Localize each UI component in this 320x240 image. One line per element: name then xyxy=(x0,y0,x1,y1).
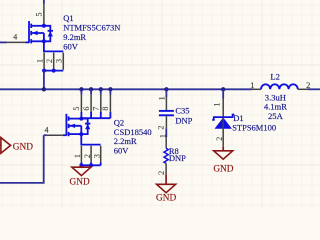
wire: Q1 drain from top edge xyxy=(43,0,45,4)
transistor Q2 symbol xyxy=(63,114,91,136)
ground under R8 xyxy=(156,174,176,203)
pin 2 (R8) xyxy=(165,163,167,174)
svg-text:D1: D1 xyxy=(233,113,243,123)
junction on bus at C35 xyxy=(164,87,168,91)
junction on bus at D1 xyxy=(221,87,225,91)
pin 1 (D1 cathode) xyxy=(222,99,224,118)
pin 4 (Q1 gate) xyxy=(0,41,7,43)
svg-text:6: 6 xyxy=(82,107,91,111)
transistor Q1 xyxy=(0,0,120,91)
junction on bus at Q2 pin 6 xyxy=(89,87,93,91)
svg-text:3: 3 xyxy=(55,59,64,63)
Q2 drain rail xyxy=(81,117,110,119)
svg-text:1: 1 xyxy=(213,103,222,107)
pin 3 (Q2 source) xyxy=(100,146,102,163)
svg-text:1: 1 xyxy=(73,154,82,158)
svg-text:DNP: DNP xyxy=(175,115,192,125)
wire: Q2 gate to left edge xyxy=(0,135,44,183)
svg-text:2: 2 xyxy=(157,126,166,130)
svg-text:4: 4 xyxy=(13,33,17,42)
pin 8 (Q2 drain) xyxy=(109,95,111,112)
svg-text:DNP: DNP xyxy=(169,153,186,163)
pin 1 (Q1 source) xyxy=(43,53,45,70)
resistor R8 zigzag xyxy=(164,148,168,163)
Q1 source rail to pins 1,2,3 xyxy=(44,41,63,51)
svg-text:1: 1 xyxy=(250,80,254,90)
Q2 source rail to pins 1,2,3 xyxy=(81,134,100,145)
svg-text:1: 1 xyxy=(158,134,167,138)
diode D1 xyxy=(212,87,276,147)
svg-text:3: 3 xyxy=(93,154,102,158)
capacitor C35 plates xyxy=(159,110,174,112)
wire: bus to Q2 pin 7 xyxy=(100,89,102,95)
pin 2 (C35) xyxy=(165,116,167,128)
pin 5 (Q1 drain) xyxy=(43,4,45,26)
svg-text:60V: 60V xyxy=(63,42,78,52)
wire: Q1 source to bus xyxy=(43,71,45,90)
svg-text:7: 7 xyxy=(92,107,101,111)
transistor Q1 symbol xyxy=(28,21,30,43)
svg-text:1: 1 xyxy=(158,96,167,100)
junction on bus at Q2 pin 5 xyxy=(79,87,83,91)
ground power port at left edge xyxy=(0,138,33,154)
svg-text:5: 5 xyxy=(72,107,81,111)
svg-text:2: 2 xyxy=(215,137,224,141)
svg-text:8: 8 xyxy=(101,107,110,111)
Q2 bottom rail xyxy=(81,164,100,166)
svg-text:GND: GND xyxy=(213,165,233,175)
wire: C35 to R8 xyxy=(165,128,167,137)
svg-text:C35: C35 xyxy=(175,105,189,115)
pin 1 (C35) xyxy=(165,97,167,110)
wire: bus to Q2 pin 5 xyxy=(80,89,82,95)
svg-text:NTMFS5C673N: NTMFS5C673N xyxy=(63,23,120,33)
svg-text:60V: 60V xyxy=(114,145,130,155)
wire: L2 to right edge xyxy=(308,88,320,90)
pin 2 (L2) xyxy=(298,88,308,90)
junction on bus at Q2 pin 7 xyxy=(99,87,103,91)
resistor R8 xyxy=(157,134,186,175)
pin 3 (Q1 source) xyxy=(62,53,64,70)
wire: bus to Q2 pin 6 xyxy=(90,89,92,95)
svg-text:GND: GND xyxy=(13,143,33,153)
pin 2 (Q1 source) xyxy=(53,53,55,70)
pin 6 (Q2 drain) xyxy=(90,95,92,112)
pin 4 (Q2 gate) xyxy=(44,134,47,136)
svg-text:4: 4 xyxy=(45,125,49,134)
svg-text:5: 5 xyxy=(35,13,44,17)
ground under D1 xyxy=(213,147,233,175)
wire: bus to Q2 pin 8 xyxy=(109,89,111,95)
svg-text:2: 2 xyxy=(45,59,54,63)
inductor L2 xyxy=(250,72,320,121)
svg-text:2: 2 xyxy=(157,171,166,175)
svg-text:2: 2 xyxy=(83,154,92,158)
pin 1 (L2) xyxy=(252,88,261,90)
pin 1 (R8) xyxy=(165,137,167,148)
svg-text:GND: GND xyxy=(70,178,90,188)
svg-text:STPS6M100: STPS6M100 xyxy=(232,123,276,133)
transistor Q2 xyxy=(0,87,152,183)
wire: switch node bus xyxy=(0,88,252,90)
junction on bus at Q2 pin 8 xyxy=(108,87,112,91)
pin 5 (Q2 drain) xyxy=(80,95,82,112)
svg-text:25A: 25A xyxy=(268,111,284,121)
inductor L2 coils xyxy=(261,84,298,89)
wire: bus to D1 xyxy=(222,89,224,98)
svg-text:GND: GND xyxy=(156,194,176,204)
ground under Q2 xyxy=(70,165,91,187)
svg-text:L2: L2 xyxy=(270,72,280,82)
pin 2 (D1 anode) xyxy=(222,117,224,147)
wire: bus to C35 xyxy=(165,89,167,97)
junction on bus at Q1 xyxy=(42,87,46,91)
svg-text:1: 1 xyxy=(36,59,45,63)
capacitor C35 xyxy=(157,87,193,129)
Q1 bottom rail xyxy=(44,70,63,72)
pin 2 (Q2 source) xyxy=(90,146,92,163)
pin 1 (Q2 source) xyxy=(80,146,82,163)
svg-text:Q1: Q1 xyxy=(63,13,73,23)
diode D1 triangle xyxy=(215,118,232,129)
pin 7 (Q2 drain) xyxy=(100,95,102,112)
svg-text:9.2mR: 9.2mR xyxy=(63,32,86,42)
D1 schottky cathode bar xyxy=(212,115,234,120)
